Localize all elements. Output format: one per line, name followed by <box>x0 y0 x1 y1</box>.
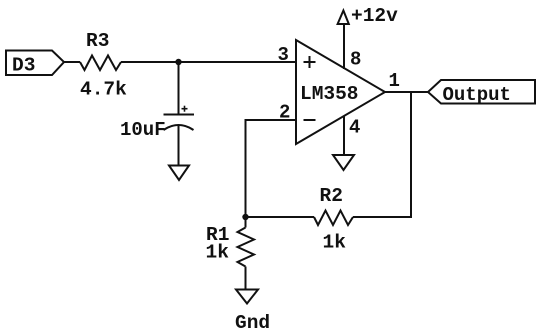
ground below R1 <box>236 290 258 304</box>
capacitor C1 top plate <box>164 114 195 116</box>
ground below capacitor <box>169 166 189 181</box>
wire junction to capacitor <box>178 62 180 115</box>
svg-text:1: 1 <box>389 70 400 92</box>
resistor R2 <box>314 211 353 226</box>
port tag D3 <box>6 51 64 76</box>
ground below pin 4 <box>333 155 354 170</box>
svg-text:D3: D3 <box>12 55 35 77</box>
capacitor plus sign <box>182 106 188 112</box>
svg-text:3: 3 <box>278 44 289 66</box>
wire node to R1 <box>245 217 247 228</box>
wire R2 to inverting node <box>246 216 315 218</box>
svg-text:1k: 1k <box>323 232 347 254</box>
wire pin 2 to inverting node <box>246 120 297 217</box>
capacitor C1 curved plate <box>164 125 194 130</box>
resistor R1 <box>238 228 255 267</box>
svg-text:1k: 1k <box>206 242 230 264</box>
op-amp minus input symbol <box>304 119 316 121</box>
node junction at capacitor <box>175 59 181 65</box>
svg-text:R3: R3 <box>86 30 109 52</box>
wire pin 1 output <box>385 91 428 93</box>
svg-text:4.7k: 4.7k <box>80 79 127 101</box>
wire pin 8 to +12v <box>343 24 345 69</box>
svg-text:+12v: +12v <box>351 5 398 27</box>
svg-text:8: 8 <box>350 49 361 71</box>
op-amp U1 LM358 <box>296 40 385 144</box>
wire capacitor to ground <box>178 126 180 166</box>
wire pin 4 to ground <box>343 116 345 156</box>
wire R3 to op-amp pin 3 <box>121 61 296 63</box>
op-amp plus input symbol <box>304 61 316 63</box>
svg-text:Gnd: Gnd <box>235 312 270 334</box>
wire output branch down to R2 <box>353 92 411 217</box>
svg-text:Output: Output <box>443 84 511 106</box>
node junction R1 R2 <box>242 214 248 220</box>
power symbol +12v arrow <box>338 11 349 25</box>
svg-text:10uF: 10uF <box>120 119 166 141</box>
svg-text:LM358: LM358 <box>300 83 359 105</box>
wire D3 to R3 <box>64 61 80 63</box>
svg-text:R2: R2 <box>320 185 343 207</box>
port tag Output <box>428 80 535 104</box>
svg-text:4: 4 <box>349 117 360 139</box>
wire R1 to ground <box>245 267 247 290</box>
resistor R3 <box>80 56 121 71</box>
